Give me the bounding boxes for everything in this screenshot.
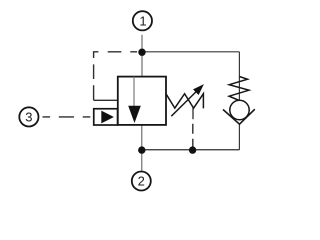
wire: junction node down to main valve body bbox=[141, 52, 143, 77]
check valve spring zigzag bbox=[229, 77, 249, 101]
main valve body (envelope box) bbox=[118, 77, 166, 125]
port circle 1 bbox=[133, 11, 152, 30]
check valve poppet circle bbox=[230, 100, 249, 119]
wire: bottom bus from port 2 branch to check valve bbox=[142, 149, 240, 151]
flow stem inside valve bbox=[133, 77, 135, 108]
svg-text:2: 2 bbox=[138, 174, 145, 189]
port circle 3 bbox=[19, 107, 38, 126]
node: junction dot on bottom bus below spring drain bbox=[189, 146, 196, 153]
wire: check valve branch vertical down to spring/poppet bbox=[238, 52, 240, 101]
check valve seat V bbox=[223, 109, 255, 124]
pilot piston triangle inside pilot box bbox=[101, 111, 114, 124]
adjustment arrow head bbox=[193, 84, 204, 95]
pilot passage solid into main valve left side bbox=[94, 99, 118, 101]
wire: spring to drain solid stub bbox=[192, 108, 194, 120]
wire: port 1 to junction node bbox=[141, 35, 143, 52]
wire: main valve body down to port 2 bbox=[141, 125, 143, 171]
node: junction dot at port 1 branch bbox=[138, 49, 145, 56]
wire: check valve outlet vertical down to bottom bus bbox=[238, 124, 240, 150]
pilot line (dashed) from junction node left and down bbox=[94, 52, 142, 101]
adjustment arrow shaft through spring bbox=[171, 91, 197, 117]
port circle 2 bbox=[132, 172, 151, 191]
node: junction dot at port 2 branch bbox=[138, 146, 145, 153]
flow arrow (closed poppet) inside valve bbox=[128, 106, 141, 123]
pilot line (dashed) spring drain vertical bbox=[192, 119, 194, 150]
adjustable spring on right of valve bbox=[166, 94, 204, 109]
wire: top bus from node to check valve branch bbox=[142, 51, 239, 53]
svg-text:1: 1 bbox=[139, 14, 146, 29]
pilot line (dashed) from port 3 to pilot box bbox=[38, 116, 93, 118]
svg-text:3: 3 bbox=[25, 110, 32, 125]
pilot box on left of valve bbox=[94, 109, 118, 125]
